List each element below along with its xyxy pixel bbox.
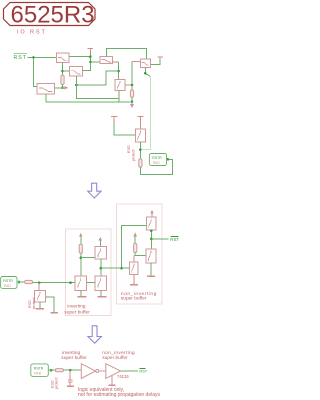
wire Q8 to Q9: [150, 230, 152, 249]
svg-text:RST: RST: [170, 237, 179, 242]
wire pad to R6: [17, 281, 25, 283]
svg-text:PAD: PAD: [153, 161, 160, 165]
svg-text:RSTR: RSTR: [152, 156, 162, 160]
wire Q2 drain right to VCC rail: [83, 69, 91, 71]
svg-text:IO RST: IO RST: [17, 30, 47, 36]
wire junction: [38, 281, 41, 284]
wire R1 bottom: [62, 85, 64, 89]
wire Q8 gate: [122, 226, 147, 269]
wire RST to Q1 gate: [28, 57, 57, 59]
wire Q9 source to gnd: [150, 263, 152, 276]
connector arrow right: [63, 86, 69, 90]
wire VCC to Q6 gate: [114, 121, 135, 135]
wire junction: [117, 70, 120, 73]
svg-text:74126: 74126: [117, 374, 129, 379]
wire arrow to Q8 top: [151, 213, 153, 217]
section arrow down: [88, 326, 101, 343]
pad pin dot: [50, 369, 53, 372]
wire Q7 drain to node: [55, 87, 63, 89]
wire R6 to Q12 gate: [33, 282, 76, 284]
wire Q10 gate: [122, 267, 130, 269]
wire Q10 source to gnd: [133, 275, 135, 284]
wire Q5 gate chain vertical: [131, 62, 133, 91]
svg-text:PAD: PAD: [34, 371, 41, 375]
wire Q12 gnd stem: [80, 291, 82, 297]
transistor Q5: [140, 59, 150, 67]
wire Q14 right to gnd: [46, 297, 55, 312]
ground bar: [51, 312, 59, 314]
wire pad to R7: [48, 369, 55, 371]
resistor R7: [55, 369, 63, 372]
wire junction: [32, 56, 35, 59]
wire to Q11 gate: [81, 257, 95, 259]
wire Q5 source jog: [145, 67, 150, 76]
wire Q4 right to R2 node: [125, 84, 132, 86]
svg-text:ESD: ESD: [127, 145, 131, 153]
svg-text:PAD: PAD: [4, 284, 11, 288]
wire Q7 bottom: [45, 94, 47, 102]
buffer U1 inverting: [81, 364, 99, 379]
wire junction: [80, 256, 83, 259]
wire junction: [69, 281, 72, 284]
resistor R5: [79, 244, 82, 253]
ground bar: [147, 275, 155, 277]
connector arrow up into Q8: [150, 210, 154, 214]
svg-text:protect: protect: [132, 148, 136, 161]
wire R4 to Q9 gate: [135, 253, 146, 256]
ground bar: [97, 296, 106, 298]
transistor Q12: [75, 276, 87, 291]
wire RST output tap: [151, 238, 168, 240]
ground bar: [109, 384, 116, 386]
pad RSTR PAD middle: [1, 277, 17, 289]
resistor R2: [130, 90, 133, 97]
wire junction: [69, 369, 72, 372]
svg-text:RSTR: RSTR: [3, 279, 13, 283]
power VCC symbol: [87, 49, 93, 52]
wire junction: [131, 84, 134, 87]
svg-text:super buffer: super buffer: [61, 355, 87, 361]
connector arrow up onto R5: [79, 233, 83, 237]
wire down to Q4 drain: [118, 62, 120, 80]
connector arrow up onto Q11: [99, 237, 103, 241]
wire junction: [131, 101, 134, 104]
wire Q6 source down: [139, 142, 141, 159]
wire U1 to U2: [99, 370, 106, 372]
wire Q1 source down: [62, 63, 64, 76]
wire U2 gnd stem: [111, 376, 113, 385]
wire Q3 top to rail: [106, 49, 146, 60]
power VCC symbol: [157, 57, 163, 60]
wire junction: [89, 55, 92, 58]
wire Q3 drain right: [113, 61, 117, 63]
power VCC symbol: [111, 116, 117, 121]
svg-text:RST: RST: [14, 55, 27, 61]
wire down to Q7 gate: [34, 58, 38, 87]
pad RSTR PAD: [149, 154, 166, 166]
ground bar: [77, 296, 86, 298]
svg-text:super buffer: super buffer: [64, 309, 90, 315]
transistor Q14: [35, 291, 46, 303]
wire to Q2 gate: [63, 70, 70, 72]
transistor Q9: [146, 249, 156, 263]
wire junction: [144, 72, 147, 75]
wire R7 to buffer input: [63, 369, 81, 371]
vcc vertical: [89, 52, 91, 71]
wire Q12 drain to Q13 gate: [87, 282, 95, 284]
buffer U2 non inverting: [106, 364, 121, 379]
wire Q7 source rail: [46, 101, 132, 103]
svg-text:RSTR: RSTR: [34, 366, 44, 370]
subcircuit box inverting super buffer: [66, 229, 112, 316]
pad pin dot: [167, 158, 170, 161]
long pale wire down to pad node: [140, 77, 150, 150]
wire VCC to Q5 right: [150, 59, 160, 64]
wire junction: [139, 148, 142, 151]
wire Q10 drain up: [133, 256, 135, 263]
wire Q2 source down and across: [76, 76, 119, 99]
connector arrow up onto R4: [133, 233, 137, 237]
wire R5 bottom node: [80, 253, 82, 276]
pad RSTR PAD bottom: [31, 364, 49, 377]
svg-text:super buffer: super buffer: [102, 355, 128, 361]
transistor Q4: [115, 80, 125, 91]
wire junction: [120, 267, 123, 270]
power VCC symbol: [137, 116, 143, 129]
wire Q1 drain right: [69, 56, 90, 58]
resistor R6: [25, 280, 33, 283]
section arrow down: [88, 183, 101, 198]
transistor Q3: [100, 56, 113, 63]
wire junction: [150, 238, 153, 241]
wire Q4 source down: [118, 91, 120, 102]
svg-text:inverting: inverting: [67, 304, 85, 310]
resistor R3: [139, 159, 142, 167]
resistor R1: [61, 75, 64, 84]
transistor Q10: [130, 262, 139, 275]
pad pin dot: [18, 281, 21, 284]
svg-text:super buffer: super buffer: [121, 296, 147, 302]
ground bar: [130, 284, 138, 286]
wire Q11 source down: [100, 259, 102, 276]
svg-text:RST: RST: [139, 369, 147, 374]
wire Q14 gnd stem: [39, 302, 41, 308]
wire junction: [89, 61, 92, 64]
wire down to Q14 drain: [38, 283, 40, 291]
wire junction: [61, 87, 64, 90]
svg-text:protect: protect: [32, 296, 36, 309]
transistor Q2: [70, 66, 83, 76]
svg-text:not for estimating propagation: not for estimating propagation delays: [78, 392, 160, 398]
wire to Q3 gate: [90, 61, 100, 63]
resistor R4: [134, 244, 137, 253]
ground bar: [36, 308, 44, 310]
subcircuit box non_inverting super buffer: [117, 204, 163, 304]
svg-text:protect: protect: [55, 376, 59, 389]
transistor Q1: [57, 53, 70, 63]
wire R2 bottom: [131, 97, 133, 102]
wire junction: [100, 267, 103, 270]
wire R3 to pad loop: [140, 159, 172, 174]
ground bar: [67, 385, 74, 387]
transistor Q13: [95, 276, 107, 291]
svg-text:6525R3: 6525R3: [11, 2, 95, 29]
wire U2 output: [121, 370, 138, 372]
capacitor ESD: [68, 370, 73, 386]
transistor Q11: [95, 247, 107, 259]
wire Q5 gate horizontal: [132, 61, 140, 63]
transistor Q8: [147, 217, 157, 230]
wire junction: [61, 70, 64, 73]
transistor Q6: [135, 129, 145, 142]
wire loop to Q2 source node: [76, 71, 118, 85]
connector arrow down: [130, 102, 134, 108]
wire junction: [150, 229, 153, 232]
title box octagon: [4, 3, 96, 26]
wire junction: [75, 84, 78, 87]
wire Q13 gnd stem: [100, 291, 102, 297]
wire Q11 node to Q10 gate: [101, 267, 122, 269]
transistor Q7: [37, 84, 55, 95]
